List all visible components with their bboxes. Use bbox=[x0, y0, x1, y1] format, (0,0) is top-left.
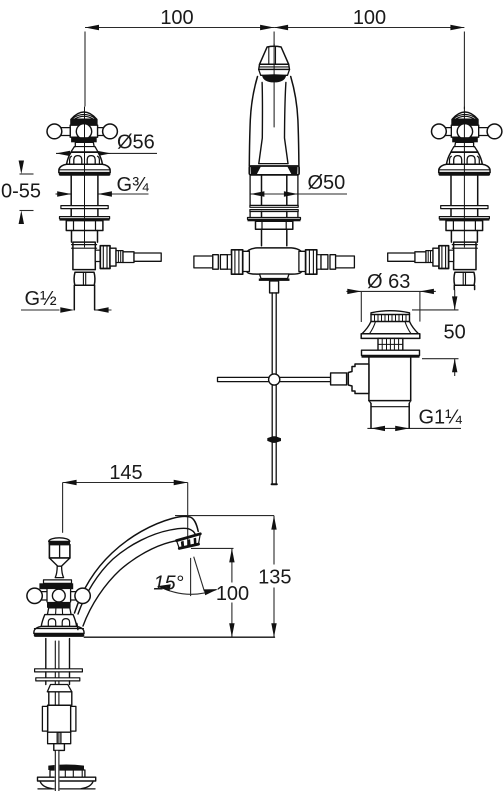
dimension 0-55 top tick bbox=[20, 173, 34, 175]
dimension D63 line bbox=[346, 290, 435, 292]
0-55 up arrow bbox=[19, 211, 24, 225]
dimension 100 (left span) line bbox=[85, 27, 274, 29]
dimension 145 line bbox=[63, 482, 188, 484]
15 degree plumb line bbox=[190, 558, 192, 596]
dimension G3/4 right segment bbox=[98, 193, 149, 195]
side hex top bbox=[47, 685, 72, 692]
deck reference line bbox=[84, 636, 274, 638]
side washer1 bbox=[35, 669, 83, 672]
side washer2 bbox=[36, 678, 80, 681]
side shank bbox=[46, 639, 70, 669]
spout outlet mouth bottom edge bbox=[179, 544, 198, 548]
side bell bbox=[41, 615, 76, 627]
50 vertical line bottom segment bbox=[454, 359, 456, 376]
right valve bottom tube bbox=[454, 285, 474, 289]
drain lever big nut bbox=[348, 364, 369, 394]
spout middle arc bbox=[78, 528, 196, 614]
dimension G1-1/4 line bbox=[367, 427, 461, 429]
drain flare trumpet bbox=[362, 322, 419, 334]
svg-text:Ø50: Ø50 bbox=[308, 172, 346, 194]
pop-up horizontal bar bbox=[218, 377, 344, 381]
svg-text:145: 145 bbox=[109, 462, 142, 484]
drain pop-up cap bbox=[371, 311, 410, 315]
side drain spool curves bbox=[40, 781, 93, 789]
tee left pipe bbox=[194, 256, 213, 268]
tee right compression nut bbox=[306, 250, 317, 274]
spout lower neck bbox=[262, 229, 287, 246]
arc arrowheads bbox=[157, 584, 171, 591]
dimension G3/4 left segment bbox=[56, 193, 72, 195]
left valve bottom tube G1/2 bbox=[74, 285, 94, 309]
side drain plate bbox=[38, 777, 96, 781]
tee right ringA bbox=[330, 255, 336, 270]
side handle right ball bbox=[75, 588, 90, 603]
side rod inside bbox=[55, 641, 59, 744]
side rod end cap bbox=[54, 744, 65, 751]
D50 arrows pointing outward bbox=[250, 191, 264, 196]
tee body bbox=[245, 248, 304, 274]
side skirt bbox=[47, 608, 71, 615]
drain spline neck bbox=[378, 338, 403, 350]
svg-text:Ø56: Ø56 bbox=[117, 132, 155, 154]
D56 arrows pointing outward bbox=[56, 151, 70, 156]
drain lever stub bbox=[331, 373, 347, 385]
spout body outline right bbox=[291, 77, 299, 167]
rod continues through bottom drain bbox=[55, 751, 60, 791]
spout hex nut bbox=[256, 221, 293, 229]
svg-text:100: 100 bbox=[353, 7, 386, 29]
svg-text:135: 135 bbox=[258, 566, 291, 588]
50 vertical line top segment bbox=[454, 290, 456, 310]
left valve bbox=[47, 107, 161, 285]
aerator dark mouth bbox=[262, 74, 286, 82]
0-55 bottom tick bbox=[20, 210, 34, 212]
side top knob dome bbox=[49, 538, 70, 542]
dimension 50 (drain height) top extension bbox=[412, 309, 459, 311]
spout outlet mouth top edge bbox=[177, 534, 201, 541]
svg-text:G½: G½ bbox=[25, 288, 58, 310]
svg-text:0-55: 0-55 bbox=[1, 181, 41, 203]
dimension G1/2 line bbox=[21, 309, 60, 311]
15 degree arc bbox=[159, 586, 217, 594]
extension line right x=464 bbox=[463, 32, 465, 110]
145 extension right bbox=[187, 483, 189, 548]
side top knob taper bbox=[49, 558, 70, 566]
aerator collar bbox=[259, 70, 290, 76]
D63 arrows outside pointing inward bbox=[347, 289, 361, 294]
drain tail tube bbox=[371, 403, 409, 428]
side big nut bbox=[48, 705, 71, 732]
100 vertical line bbox=[231, 548, 233, 582]
15 degree stream line bbox=[194, 557, 205, 592]
side top knob cube bbox=[49, 545, 70, 558]
spout tube bottom edge bbox=[259, 163, 288, 165]
svg-text:G¾: G¾ bbox=[117, 174, 150, 196]
135 vertical line bbox=[273, 516, 275, 565]
side handle arms bbox=[42, 592, 75, 600]
dimension 100 (side view) top extension bbox=[191, 547, 234, 549]
shank thin plate 1 bbox=[250, 205, 298, 207]
0-55 down arrow bbox=[19, 161, 24, 175]
spout outer top arc bbox=[75, 516, 199, 613]
dimension 135 top extension bbox=[175, 515, 274, 517]
tee bottom tube bbox=[270, 281, 279, 293]
drain barrel bbox=[369, 358, 411, 401]
svg-text:Ø 63: Ø 63 bbox=[367, 271, 410, 293]
side handle block bbox=[47, 589, 71, 602]
svg-text:15°: 15° bbox=[153, 573, 183, 595]
tee left compression nut bbox=[232, 250, 243, 274]
tee right pipe bbox=[336, 256, 355, 268]
svg-text:100: 100 bbox=[160, 7, 193, 29]
tee left ringA bbox=[213, 255, 219, 270]
tee right ring2 bbox=[321, 255, 328, 270]
tee right washer bbox=[317, 255, 321, 270]
spout inner bottom arc bbox=[83, 539, 184, 626]
spout outlet mouth sides bbox=[177, 534, 201, 549]
spout centerline bbox=[273, 44, 275, 127]
145 extension left bbox=[62, 483, 64, 533]
spout inner tube right bbox=[285, 83, 289, 164]
ball joint circle bbox=[269, 374, 280, 385]
center extension x=274 (continues as spout centerline) bbox=[273, 32, 275, 48]
side drain cap body bbox=[50, 770, 85, 777]
extension line left x=85 bbox=[84, 32, 86, 107]
rod bottom tip bbox=[272, 483, 277, 485]
arrows center x=274 bbox=[260, 25, 274, 30]
right valve (mirrored) bbox=[388, 107, 502, 285]
drain lower flange bbox=[362, 350, 420, 355]
arrow left tip x=85 bbox=[85, 25, 99, 30]
spout base dark wedges bbox=[251, 167, 261, 175]
tee right ring bbox=[299, 251, 306, 271]
side bell base bbox=[34, 627, 84, 634]
50 bottom extension bbox=[422, 358, 459, 360]
arrow right tip x=464 bbox=[450, 25, 464, 30]
pop-up rod bbox=[272, 293, 276, 484]
spout shank flange bbox=[248, 218, 301, 220]
spout body outline left bbox=[249, 77, 257, 167]
tee bottom cap bbox=[260, 274, 290, 279]
side body bbox=[49, 692, 72, 705]
tee left ring bbox=[243, 251, 250, 271]
spout aerator tip bbox=[260, 46, 289, 64]
drain D63 plate bbox=[361, 334, 420, 339]
svg-text:100: 100 bbox=[216, 583, 249, 605]
side handle hub circle bbox=[52, 589, 65, 602]
spout shank below bbox=[262, 175, 287, 205]
spout base ring bbox=[249, 166, 299, 175]
svg-text:50: 50 bbox=[444, 322, 466, 344]
svg-text:G1¼: G1¼ bbox=[419, 406, 463, 428]
dimension 100 (right span) line bbox=[274, 27, 464, 29]
dimension D50 line bbox=[250, 193, 347, 195]
drain cap knurl band bbox=[371, 315, 410, 322]
side handle top collar bbox=[44, 580, 72, 583]
dimension D56: line across bell bbox=[56, 152, 157, 154]
G1-1/4 arrows pointing outward bbox=[371, 426, 385, 431]
side handle left ball bbox=[27, 588, 42, 603]
spout inner tube left bbox=[259, 83, 263, 164]
side handle top dark band bbox=[39, 583, 73, 589]
outlet mouth dark ticks bbox=[181, 541, 184, 547]
shank thin plate 2 bbox=[250, 210, 298, 212]
drain tail joint bbox=[369, 401, 411, 404]
aerator ring bbox=[259, 64, 290, 69]
spout outer sleeve lines bbox=[250, 175, 298, 218]
side drain cap dark band bbox=[48, 765, 84, 771]
side top knob knurl band bbox=[49, 542, 71, 545]
tee left washer bbox=[227, 255, 231, 270]
tee left ring2 bbox=[220, 255, 227, 270]
rod clamp bead bbox=[267, 436, 281, 443]
D63 extension lines bbox=[360, 291, 362, 322]
spout outer arc tail over bell base bbox=[77, 624, 78, 630]
side lower hex bbox=[48, 732, 58, 744]
side knob stem bbox=[55, 566, 63, 577]
side handle bottom dark band bbox=[47, 602, 71, 608]
